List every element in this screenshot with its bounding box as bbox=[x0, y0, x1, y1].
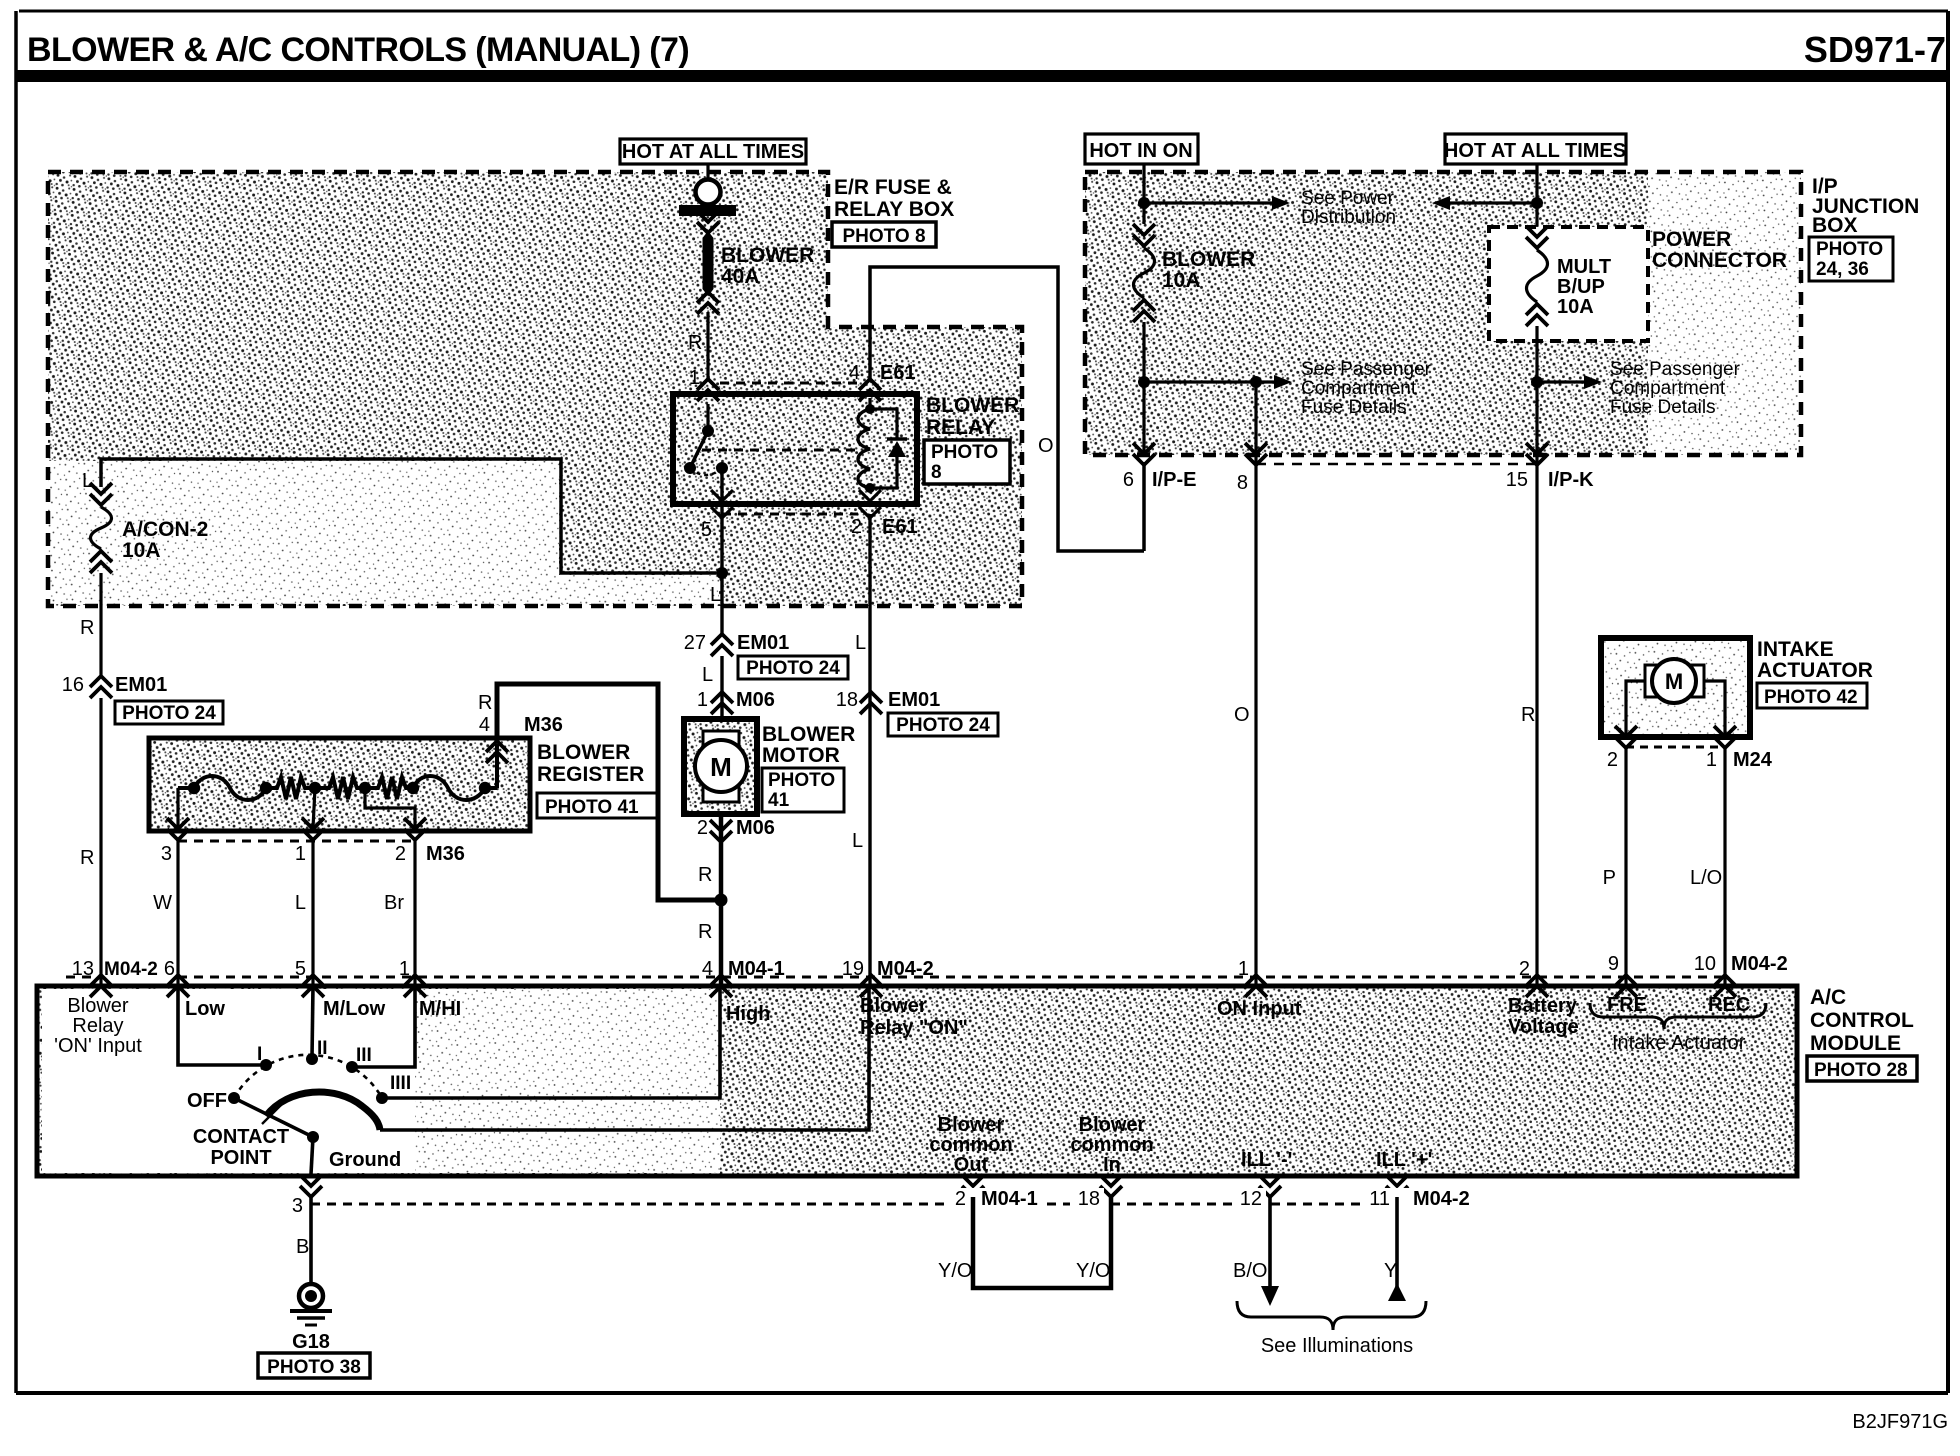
svg-text:M06: M06 bbox=[736, 817, 775, 839]
relay pin5 chevron inside bbox=[711, 490, 733, 501]
power connector dashed box bbox=[1489, 227, 1648, 341]
relay switch contact dot left bbox=[684, 462, 696, 474]
switch contact dot OFF bbox=[228, 1092, 240, 1104]
connector EM01 pin18 chevrons bbox=[860, 692, 882, 703]
svg-text:L: L bbox=[855, 632, 866, 654]
relay switch blade bbox=[690, 431, 708, 468]
switch pivot dot bbox=[307, 1131, 319, 1143]
svg-text:L: L bbox=[702, 664, 713, 686]
blower register box gray fill bbox=[149, 738, 530, 831]
fuse BLOWER 10A upper chevrons bbox=[1133, 235, 1155, 246]
svg-text:In: In bbox=[1103, 1154, 1121, 1176]
intake actuator motor circle bbox=[1652, 659, 1696, 703]
svg-text:Y/O: Y/O bbox=[1076, 1260, 1110, 1282]
switch dashed contact arc bbox=[234, 1055, 382, 1098]
blower motor brush rect bbox=[703, 731, 739, 802]
blower relay photo 8 label box bbox=[924, 440, 1010, 484]
module internal wire High bbox=[382, 986, 720, 1098]
fuse BLOWER 40A body bbox=[703, 231, 714, 296]
relay coil top junction dot bbox=[865, 404, 875, 414]
A/C control module switch area white cutout bbox=[42, 989, 415, 1173]
wire fuse A/CON-2 to connector EM01 pin16 bbox=[99, 573, 102, 676]
svg-text:10A: 10A bbox=[1162, 269, 1201, 292]
I/P connector thin dashed line pin8 to pin15 bbox=[1256, 463, 1537, 466]
svg-text:8: 8 bbox=[931, 462, 942, 483]
svg-text:Low: Low bbox=[185, 998, 225, 1020]
svg-text:Battery: Battery bbox=[1508, 995, 1578, 1017]
svg-text:CONTACT: CONTACT bbox=[193, 1126, 289, 1148]
junction dot right bbox=[1531, 197, 1543, 209]
svg-text:REGISTER: REGISTER bbox=[537, 763, 644, 786]
ground symbol G18 bbox=[299, 1284, 323, 1308]
svg-text:PHOTO 28: PHOTO 28 bbox=[1814, 1060, 1908, 1081]
page frame bottom edge bbox=[16, 1391, 1948, 1395]
svg-text:IIII: IIII bbox=[390, 1073, 411, 1094]
wire pin8 down to module pin1 bbox=[1254, 382, 1257, 984]
wire register pin2 to module pin1 bbox=[413, 839, 416, 984]
wire register pin1 to module pin5 bbox=[311, 839, 314, 984]
svg-text:A/C: A/C bbox=[1810, 986, 1846, 1009]
connector M24 pin2 chevrons bbox=[1615, 737, 1637, 748]
arrow see passenger fuse details left instance bbox=[1144, 380, 1274, 383]
svg-text:BOX: BOX bbox=[1812, 214, 1858, 237]
relay pin5 wire out bbox=[720, 468, 723, 506]
svg-text:BLOWER: BLOWER bbox=[762, 723, 855, 746]
connector M04 dashed line bbox=[178, 976, 1725, 979]
relay pin2 chevron inside bbox=[859, 490, 881, 501]
svg-text:OFF: OFF bbox=[187, 1090, 227, 1112]
svg-text:L: L bbox=[295, 892, 306, 914]
wire I/P-E pin6 down to O-wire junction bbox=[1142, 462, 1146, 551]
wire relay pin1 chevron to pivot bbox=[706, 404, 709, 433]
contact point pointer line bbox=[262, 1105, 281, 1124]
switch contact dot IIII bbox=[376, 1092, 388, 1104]
module internal wire M/Low bbox=[312, 986, 313, 1058]
fuse BLOWER 10A lower chevrons bbox=[1133, 300, 1155, 311]
svg-text:1: 1 bbox=[697, 689, 708, 711]
relay coil bbox=[858, 409, 870, 488]
svg-text:PHOTO: PHOTO bbox=[931, 442, 998, 463]
svg-text:Y/O: Y/O bbox=[938, 1260, 972, 1282]
register photo 41 label box bbox=[537, 793, 657, 818]
svg-text:1: 1 bbox=[1706, 749, 1717, 771]
connector M04 dashed line segment left of pin13 bbox=[66, 976, 96, 979]
I/P junction box gray fill bbox=[1085, 172, 1801, 455]
pin 18 label bbox=[1070, 1188, 1104, 1207]
connector E61 dashed line top bbox=[720, 382, 858, 385]
svg-text:Blower: Blower bbox=[938, 1114, 1005, 1136]
svg-text:M24: M24 bbox=[1733, 749, 1773, 771]
wire EM01 pin27 to blower motor pin1 bbox=[720, 656, 723, 719]
register step drop to pin2 bbox=[365, 788, 415, 828]
intake actuator box gray fill bbox=[1601, 638, 1750, 737]
svg-text:'ON' Input: 'ON' Input bbox=[54, 1035, 142, 1057]
svg-text:B/O: B/O bbox=[1233, 1260, 1267, 1282]
svg-text:ILL '+': ILL '+' bbox=[1376, 1149, 1432, 1171]
svg-text:P: P bbox=[1603, 867, 1616, 889]
connector M06 pin1 chevrons bbox=[711, 692, 733, 703]
blower register box bbox=[149, 738, 530, 831]
svg-text:ILL '-': ILL '-' bbox=[1241, 1149, 1292, 1171]
svg-text:MULT: MULT bbox=[1557, 256, 1611, 278]
svg-text:4: 4 bbox=[702, 958, 713, 980]
svg-text:Compartment: Compartment bbox=[1301, 378, 1417, 399]
connector EM01 pin27 chevrons bbox=[711, 634, 733, 645]
connector E61 dashed line bottom bbox=[722, 513, 858, 516]
fuse A/CON-2 upper chevrons bbox=[90, 494, 112, 505]
relay BLOWER RELAY box bbox=[673, 394, 917, 504]
svg-text:4: 4 bbox=[849, 362, 860, 384]
fuse BLOWER 40A lower chevrons bbox=[697, 292, 719, 303]
svg-text:L: L bbox=[852, 830, 863, 852]
switch blade OFF to pivot bbox=[234, 1098, 313, 1137]
blower common pigtail wire Y/O bbox=[973, 1197, 1111, 1288]
svg-text:Voltage: Voltage bbox=[1508, 1016, 1579, 1038]
svg-text:ACTUATOR: ACTUATOR bbox=[1757, 659, 1873, 682]
wire HOT IN ON to fuse BLOWER 10A bbox=[1142, 164, 1145, 224]
wire fuse 40A to relay pin 1 bbox=[706, 312, 709, 380]
svg-text:R: R bbox=[688, 332, 702, 354]
relay switch pivot dot bbox=[702, 425, 714, 437]
svg-text:A/CON-2: A/CON-2 bbox=[122, 518, 208, 541]
register chain node dots bbox=[188, 782, 200, 794]
svg-text:BLOWER: BLOWER bbox=[926, 394, 1019, 417]
svg-text:M04-2: M04-2 bbox=[1413, 1188, 1470, 1210]
blower motor box bbox=[684, 719, 757, 814]
svg-text:W: W bbox=[153, 892, 172, 914]
connector M24 dashed line bbox=[1626, 746, 1725, 749]
wire relay pin5 to EM01 pin27 bbox=[720, 573, 723, 634]
svg-text:Fuse Details: Fuse Details bbox=[1301, 397, 1407, 418]
svg-text:O: O bbox=[1234, 704, 1250, 726]
A/C control module light mid zone bbox=[415, 989, 720, 1173]
svg-text:SD971-7: SD971-7 bbox=[1804, 29, 1946, 70]
svg-text:PHOTO: PHOTO bbox=[1816, 239, 1883, 260]
svg-text:I/P-K: I/P-K bbox=[1548, 469, 1594, 491]
blower motor photo 41 label box bbox=[762, 768, 844, 812]
relay switch dashed throw arc bbox=[690, 468, 722, 475]
svg-text:1: 1 bbox=[689, 367, 700, 389]
svg-text:R: R bbox=[698, 921, 712, 943]
svg-text:L: L bbox=[710, 584, 721, 606]
svg-text:9: 9 bbox=[1608, 953, 1619, 975]
svg-text:16: 16 bbox=[62, 674, 84, 696]
svg-text:R: R bbox=[698, 864, 712, 886]
svg-text:18: 18 bbox=[836, 689, 858, 711]
svg-text:O: O bbox=[1038, 435, 1054, 457]
svg-text:PHOTO 42: PHOTO 42 bbox=[1764, 687, 1858, 708]
svg-text:L: L bbox=[82, 470, 93, 492]
svg-text:4: 4 bbox=[479, 714, 490, 736]
register drop to pin3 bbox=[176, 788, 179, 828]
module bottom pin chevrons bbox=[300, 1186, 322, 1197]
svg-text:2: 2 bbox=[1519, 958, 1530, 980]
module internal wire M/HI bbox=[356, 986, 415, 1067]
svg-text:I: I bbox=[257, 1044, 262, 1065]
svg-text:B2JF971G: B2JF971G bbox=[1852, 1411, 1948, 1433]
register chain riser to pin4 bbox=[495, 744, 499, 788]
svg-text:R: R bbox=[80, 847, 94, 869]
HOT IN ON label box bbox=[1085, 134, 1198, 164]
connector E61 pin4 chevrons bbox=[859, 379, 881, 390]
svg-text:PHOTO 41: PHOTO 41 bbox=[545, 797, 639, 818]
HOT AT ALL TIMES label box right bbox=[1445, 134, 1626, 164]
junction dot relay pin5 / A-CON2 feed bbox=[716, 567, 728, 579]
connector I/P-E pin6 chevrons bbox=[1133, 454, 1155, 465]
power connector white cutout bbox=[1489, 227, 1648, 341]
switch ground wire bbox=[311, 1137, 313, 1174]
relay diode triangle bbox=[888, 441, 906, 457]
svg-text:2: 2 bbox=[697, 817, 708, 839]
see illuminations brace bbox=[1237, 1301, 1426, 1330]
svg-text:B/UP: B/UP bbox=[1557, 276, 1605, 298]
svg-text:13: 13 bbox=[72, 958, 94, 980]
svg-text:M04-2: M04-2 bbox=[877, 958, 934, 980]
svg-text:R: R bbox=[80, 617, 94, 639]
fuse MULT B/UP wavy body bbox=[1527, 250, 1548, 302]
svg-text:G18: G18 bbox=[292, 1331, 330, 1353]
svg-text:M: M bbox=[1665, 669, 1683, 694]
svg-text:6: 6 bbox=[164, 958, 175, 980]
fuse MULT B/UP lower chevrons bbox=[1526, 304, 1548, 315]
junction dot fuse details right bbox=[1531, 376, 1543, 388]
arrow see power distribution left-pointing bbox=[1450, 201, 1537, 204]
I/P junction box lighter right zone bbox=[1648, 172, 1801, 455]
blower motor box gray fill bbox=[684, 719, 757, 814]
register resistor chain bbox=[178, 776, 497, 800]
svg-text:INTAKE: INTAKE bbox=[1757, 638, 1834, 661]
connector M04 dashed line below module bbox=[311, 1203, 1460, 1206]
intake actuator photo 42 label box bbox=[1757, 683, 1867, 708]
svg-text:HOT AT ALL TIMES: HOT AT ALL TIMES bbox=[1444, 140, 1626, 162]
I/P junction photo 24,36 label box bbox=[1809, 237, 1893, 281]
svg-text:27: 27 bbox=[684, 632, 706, 654]
svg-text:L/O: L/O bbox=[1690, 867, 1722, 889]
relay coil bottom junction dot bbox=[865, 483, 875, 493]
svg-text:Compartment: Compartment bbox=[1610, 378, 1726, 399]
svg-text:FRE: FRE bbox=[1607, 994, 1647, 1016]
svg-text:common: common bbox=[929, 1134, 1012, 1156]
svg-text:8: 8 bbox=[1237, 472, 1248, 494]
svg-text:M06: M06 bbox=[736, 689, 775, 711]
svg-text:1: 1 bbox=[295, 843, 306, 865]
connector M06 pin2 chevrons bbox=[710, 831, 732, 842]
svg-text:See Passenger: See Passenger bbox=[1301, 359, 1432, 380]
switch contact dot I bbox=[260, 1059, 272, 1071]
wire O from relay pin4 to I/P-E pin6 bbox=[870, 267, 1144, 551]
relay switch output contact dot bbox=[716, 462, 728, 474]
A/C control module box gray fill bbox=[37, 986, 1797, 1176]
EM01 pin27 photo 24 label box bbox=[738, 656, 848, 679]
connector pin8 chevrons bbox=[1245, 454, 1267, 465]
svg-text:Relay: Relay bbox=[72, 1015, 123, 1037]
junction dot fuse details left bbox=[1138, 376, 1150, 388]
connector M36 pin3 chevrons bbox=[167, 829, 189, 840]
connector EM01 pin16 chevrons bbox=[90, 676, 112, 687]
svg-text:HOT IN ON: HOT IN ON bbox=[1089, 140, 1192, 162]
pin 12 label bbox=[1234, 1188, 1266, 1207]
svg-text:Ground: Ground bbox=[329, 1149, 401, 1171]
svg-text:12: 12 bbox=[1240, 1188, 1262, 1210]
svg-text:See Illuminations: See Illuminations bbox=[1261, 1335, 1413, 1357]
ground wire B bbox=[309, 1197, 313, 1284]
svg-text:B: B bbox=[296, 1236, 309, 1258]
FRE REC brace bbox=[1590, 1003, 1766, 1029]
svg-text:5: 5 bbox=[701, 519, 712, 541]
switch rotor thick arc bbox=[266, 1092, 380, 1130]
pin 11 label bbox=[1362, 1188, 1474, 1207]
svg-text:24, 36: 24, 36 bbox=[1816, 259, 1869, 280]
svg-text:Distribution: Distribution bbox=[1301, 207, 1396, 228]
svg-text:Fuse Details: Fuse Details bbox=[1610, 397, 1716, 418]
switch contact dot III bbox=[346, 1061, 358, 1073]
svg-text:2: 2 bbox=[851, 516, 862, 538]
svg-text:Blower: Blower bbox=[1079, 1114, 1146, 1136]
module top pin chevrons bbox=[90, 975, 112, 986]
connector E61 pin2 chevron below box bbox=[859, 507, 881, 518]
arrow see passenger fuse details right instance bbox=[1537, 380, 1584, 383]
wire blower motor to junction bbox=[719, 814, 724, 900]
register drop to pin1 bbox=[313, 788, 315, 828]
svg-text:BLOWER: BLOWER bbox=[537, 741, 630, 764]
svg-text:PHOTO 8: PHOTO 8 bbox=[842, 226, 925, 247]
svg-text:PHOTO 38: PHOTO 38 bbox=[267, 1357, 361, 1378]
wire EM01 pin16 to module pin13 bbox=[99, 698, 102, 984]
svg-text:M/HI: M/HI bbox=[419, 998, 461, 1020]
ground photo 38 label box bbox=[258, 1353, 370, 1378]
svg-text:Blower: Blower bbox=[67, 995, 128, 1017]
fuse BLOWER 40A bar bbox=[679, 205, 736, 216]
svg-text:Out: Out bbox=[954, 1154, 989, 1176]
wire M24 pin2 to module pin9 bbox=[1624, 747, 1627, 984]
illumination wire Y with up arrow bbox=[1395, 1197, 1399, 1300]
svg-text:HOT AT ALL TIMES: HOT AT ALL TIMES bbox=[622, 141, 804, 163]
svg-text:EM01: EM01 bbox=[737, 632, 789, 654]
intake actuator left wire bbox=[1626, 681, 1645, 737]
wire fuse 10A down to I/P-E bbox=[1142, 322, 1145, 455]
wire feed to fuse A/CON-2 bbox=[101, 459, 716, 573]
module internal wire blower relay on bbox=[380, 986, 869, 1130]
relay pin5 wire below box bbox=[720, 506, 723, 576]
wire fuse MULT down to I/P-K bbox=[1535, 326, 1538, 455]
svg-text:MOTOR: MOTOR bbox=[762, 744, 840, 767]
svg-text:2: 2 bbox=[1607, 749, 1618, 771]
svg-text:M04-1: M04-1 bbox=[981, 1188, 1038, 1210]
E/R fuse and relay box gray fill bbox=[48, 172, 1022, 606]
relay diode branch wire bbox=[870, 409, 897, 438]
svg-text:M: M bbox=[710, 752, 732, 782]
svg-text:See Passenger: See Passenger bbox=[1610, 359, 1741, 380]
wire junction to module pin4 bbox=[719, 900, 724, 984]
svg-text:PHOTO 24: PHOTO 24 bbox=[896, 715, 990, 736]
connector M36 dashed line bbox=[178, 840, 415, 843]
svg-text:6: 6 bbox=[1123, 469, 1134, 491]
svg-text:I/P-E: I/P-E bbox=[1152, 469, 1196, 491]
wire from HOT AT ALL TIMES to fuse BLOWER 40A bbox=[706, 163, 709, 178]
EM01 photo 24 label box bbox=[115, 701, 223, 724]
E/R box lighter zone under feed wire bbox=[48, 461, 719, 604]
fuse A/CON-2 lower chevrons bbox=[90, 551, 112, 562]
wire register pin3 to module pin6 bbox=[176, 839, 179, 984]
svg-text:M04-1: M04-1 bbox=[728, 958, 785, 980]
wire register pin4 feed (thick) bbox=[497, 684, 715, 900]
arrow see power distribution right-pointing bbox=[1144, 201, 1272, 204]
svg-text:E61: E61 bbox=[882, 516, 918, 538]
wire relay pin2/E61 to module pin19 bbox=[868, 514, 871, 984]
svg-text:Br: Br bbox=[384, 892, 404, 914]
svg-text:18: 18 bbox=[1078, 1188, 1100, 1210]
svg-text:R: R bbox=[478, 692, 492, 714]
svg-text:RELAY BOX: RELAY BOX bbox=[834, 198, 954, 221]
svg-text:E/R FUSE &: E/R FUSE & bbox=[834, 176, 952, 199]
svg-text:III: III bbox=[356, 1045, 372, 1066]
svg-text:M04-2: M04-2 bbox=[1731, 953, 1788, 975]
wire relay pin4 chevron to coil bbox=[868, 398, 871, 412]
svg-text:Relay "ON": Relay "ON" bbox=[860, 1017, 968, 1039]
svg-text:PHOTO 24: PHOTO 24 bbox=[746, 658, 840, 679]
intake actuator left brush bbox=[1645, 665, 1657, 697]
title separator thick bar bbox=[16, 70, 1948, 82]
svg-text:2: 2 bbox=[395, 843, 406, 865]
svg-text:BLOWER & A/C CONTROLS (MANUAL): BLOWER & A/C CONTROLS (MANUAL) (7) bbox=[27, 31, 689, 69]
svg-text:Y: Y bbox=[1384, 1260, 1397, 1282]
svg-text:See Power: See Power bbox=[1301, 188, 1395, 209]
svg-text:EM01: EM01 bbox=[115, 674, 167, 696]
A/C control module box bbox=[37, 986, 1797, 1176]
svg-text:3: 3 bbox=[161, 843, 172, 865]
svg-text:3: 3 bbox=[292, 1195, 303, 1217]
svg-text:ON Input: ON Input bbox=[1217, 998, 1302, 1020]
connector M24 pin1 chevrons bbox=[1714, 737, 1736, 748]
svg-text:10A: 10A bbox=[1557, 296, 1594, 318]
intake actuator box bbox=[1601, 638, 1750, 737]
svg-text:REC: REC bbox=[1708, 994, 1750, 1016]
svg-text:PHOTO 24: PHOTO 24 bbox=[122, 703, 216, 724]
junction dot see power distribution left bbox=[1138, 197, 1150, 209]
svg-text:POINT: POINT bbox=[210, 1147, 271, 1169]
connector M36 pin2 chevrons bbox=[404, 829, 426, 840]
E/R photo 8 label box bbox=[832, 222, 936, 247]
illumination wire B/O with down arrow bbox=[1268, 1197, 1272, 1286]
svg-text:R: R bbox=[1521, 704, 1535, 726]
svg-text:2: 2 bbox=[955, 1188, 966, 1210]
svg-text:RELAY: RELAY bbox=[926, 416, 995, 439]
svg-text:11: 11 bbox=[1369, 1188, 1390, 1210]
svg-text:High: High bbox=[726, 1003, 770, 1025]
page frame right edge bbox=[1946, 11, 1950, 1393]
connector M36 pin1 chevrons bbox=[302, 829, 324, 840]
relay diode cathode bar bbox=[887, 437, 907, 441]
svg-text:PHOTO: PHOTO bbox=[768, 770, 835, 791]
E/R fuse and relay box dashed border bbox=[48, 172, 1022, 606]
svg-text:Intake Actuator: Intake Actuator bbox=[1612, 1032, 1746, 1054]
fuse BLOWER 40A upper chevrons bbox=[697, 222, 719, 233]
svg-text:CONTROL: CONTROL bbox=[1810, 1009, 1914, 1032]
svg-text:BLOWER: BLOWER bbox=[721, 244, 814, 267]
page outer frame top rule bbox=[19, 10, 1948, 13]
switch contact dot II bbox=[306, 1053, 318, 1065]
fuse BLOWER 40A head circle bbox=[696, 180, 721, 205]
fuse MULT B/UP upper chevrons bbox=[1526, 237, 1548, 248]
junction dot blower motor / register high feed bbox=[715, 894, 728, 907]
svg-text:40A: 40A bbox=[721, 265, 760, 288]
I/P junction box dashed border bbox=[1085, 172, 1801, 455]
pin 2 label M04-1 bbox=[948, 1188, 1046, 1207]
fuse A/CON-2 wavy body bbox=[91, 507, 112, 549]
svg-text:1: 1 bbox=[1238, 958, 1249, 980]
svg-text:19: 19 bbox=[842, 958, 864, 980]
wire M24 pin1 to module pin10 bbox=[1723, 747, 1726, 984]
